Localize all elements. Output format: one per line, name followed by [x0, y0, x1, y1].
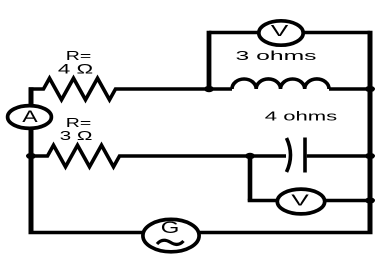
svg-text:3 ohms: 3 ohms: [236, 49, 317, 63]
svg-text:V: V: [291, 191, 309, 209]
svg-text:V: V: [271, 21, 289, 39]
svg-text:4 Ω: 4 Ω: [58, 61, 93, 76]
svg-text:3 Ω: 3 Ω: [60, 128, 93, 143]
svg-text:G: G: [161, 218, 180, 236]
svg-text:4 ohms: 4 ohms: [265, 109, 337, 123]
svg-text:A: A: [22, 108, 38, 126]
